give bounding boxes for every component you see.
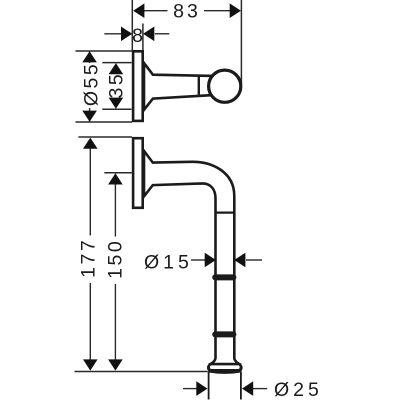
pipe ring 2: [212, 331, 236, 337]
body: cone, arm, bend, vertical pipe: [144, 151, 241, 365]
dimension 35 extension bottom: [102, 108, 131, 110]
dimension 8 tails: [104, 33, 121, 35]
wire: ball right extension line (right of dim 83): [240, 0, 242, 84]
dimension O55 extension bottom: [76, 121, 133, 123]
dimension 177 extension top: [78, 136, 132, 138]
arrow 177 up: [83, 138, 98, 149]
dimension 150 extension top: [104, 172, 132, 174]
arrow 150 up: [108, 173, 123, 184]
top cone and arm: [144, 63, 213, 110]
bottom wall plate: [133, 138, 143, 208]
base cylinder right wall: [240, 372, 242, 400]
arrow 35 down: [109, 98, 124, 109]
arrow O15 left: [205, 253, 216, 268]
arrow O15 right: [234, 253, 245, 268]
arm sleeve joint: [198, 75, 200, 95]
dimension 35 extension top: [102, 62, 131, 64]
arrow 8 right: [143, 27, 154, 42]
svg-text:83: 83: [173, 1, 201, 23]
pipe ring 1: [212, 274, 236, 280]
wire: plate front extension line (right of dim 8): [142, 24, 144, 51]
base cylinder left wall: [208, 372, 210, 400]
arrow 8 left: [121, 27, 132, 42]
svg-text:Ø25: Ø25: [274, 379, 323, 400]
baseline extension bottom: [75, 371, 208, 373]
svg-text:8: 8: [132, 25, 143, 47]
arrow O55 up: [82, 51, 97, 62]
dimension O55 line: [89, 52, 91, 64]
arrow 83 right: [230, 3, 241, 18]
svg-text:150: 150: [104, 239, 126, 279]
arrow 35 up: [109, 63, 124, 74]
dimension O15 tails: [191, 259, 205, 261]
dimension 150 line: [114, 184, 116, 237]
arrow 83 left: [133, 3, 144, 18]
svg-text:177: 177: [78, 238, 100, 278]
svg-text:Ø55: Ø55: [81, 62, 103, 106]
ball knob: [209, 70, 241, 102]
top wall plate: [133, 51, 143, 121]
base disc white strip: [210, 365, 240, 369]
arrow 150 down: [108, 359, 123, 370]
dimension O55 extension top: [76, 50, 133, 52]
dimension 177 line: [89, 149, 91, 236]
base disc: [207, 363, 243, 374]
pipe joint line: [216, 212, 235, 214]
arrow O55 down: [82, 111, 97, 122]
wire: wall extension line (left of dim 83 / 8): [131, 0, 133, 50]
arrow 177 down: [83, 359, 98, 370]
dimension O25 tails: [183, 388, 197, 390]
arrow O25 left: [196, 381, 207, 396]
arrow O25 right: [242, 381, 253, 396]
svg-text:35: 35: [105, 72, 127, 99]
dimension 83 line segments: [144, 10, 168, 12]
svg-text:Ø15: Ø15: [144, 252, 193, 274]
